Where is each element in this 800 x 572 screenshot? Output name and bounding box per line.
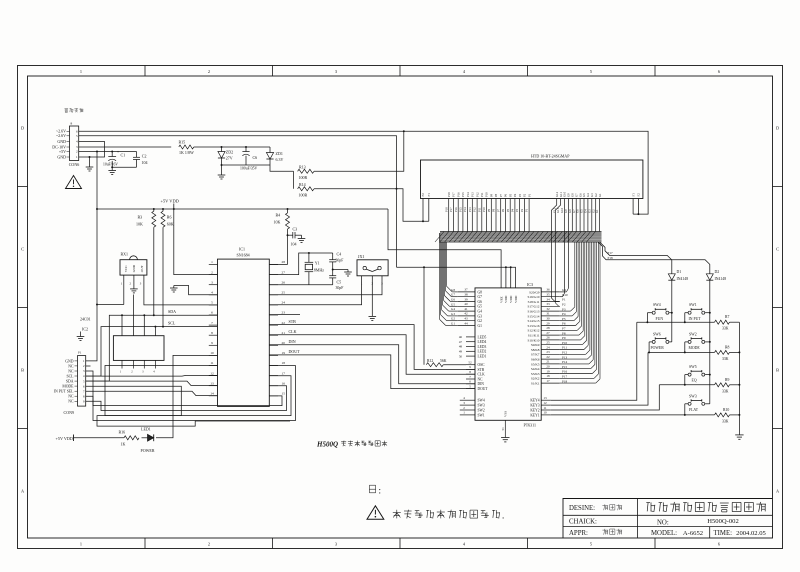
svg-text:40: 40 (464, 302, 468, 306)
svg-text:IN PUT: IN PUT (689, 317, 702, 321)
wire switch column 2 (D2) (705, 312, 710, 314)
svg-text:H500Q: H500Q (316, 441, 338, 449)
resistor R13 (298, 169, 314, 173)
wire +5V vertical (96, 152, 98, 210)
svg-text:P11: P11 (562, 346, 567, 350)
svg-text:4: 4 (463, 69, 466, 74)
svg-text:7: 7 (469, 375, 471, 379)
svg-text::: : (379, 486, 382, 496)
svg-text:4: 4 (153, 371, 155, 374)
svg-text:22: 22 (282, 321, 286, 325)
node +5V VDD (LED) (73, 435, 75, 442)
svg-text:P3: P3 (518, 193, 522, 197)
wire filament-2 (79, 136, 397, 267)
svg-text:100R: 100R (299, 175, 308, 180)
svg-text:B: B (776, 368, 779, 373)
svg-text:24: 24 (546, 345, 550, 349)
svg-text:27V: 27V (226, 156, 233, 161)
svg-text:11: 11 (210, 361, 214, 365)
wire P18 tap to D2 (599, 243, 710, 274)
svg-text:C: C (776, 247, 779, 252)
svg-text:1: 1 (120, 371, 122, 374)
svg-text:8: 8 (83, 394, 85, 398)
svg-text:+5V VDD: +5V VDD (161, 199, 179, 204)
svg-text:C4: C4 (337, 252, 342, 257)
wire IC1 pin25 to JX1 (269, 281, 382, 295)
svg-text:P13: P13 (468, 207, 472, 212)
svg-text:P4: P4 (513, 193, 517, 197)
svg-text:LED5: LED5 (478, 335, 487, 339)
svg-text:P5: P5 (508, 193, 512, 197)
switch SW6 POWER (652, 340, 655, 343)
svg-text:NC: NC (68, 395, 74, 399)
PT6311 left pins SW4-SW1 (460, 399, 475, 401)
svg-text:12: 12 (543, 401, 547, 405)
svg-text:P17: P17 (608, 251, 613, 255)
svg-text:37: 37 (464, 288, 468, 292)
svg-text:50: 50 (459, 354, 463, 358)
svg-text:G1: G1 (451, 322, 455, 326)
capacitor C5 (332, 270, 334, 276)
svg-text:R13: R13 (299, 164, 306, 169)
svg-text:G3: G3 (478, 314, 483, 318)
svg-text:R15: R15 (179, 140, 186, 145)
svg-text:G6: G6 (451, 298, 455, 302)
svg-text:R3: R3 (138, 215, 143, 220)
svg-text:MODE: MODE (62, 385, 74, 389)
svg-text:S16/G13: S16/G13 (527, 310, 539, 314)
svg-text:8: 8 (469, 370, 471, 374)
svg-text:3: 3 (335, 542, 337, 547)
capacitor C1 (111, 152, 113, 157)
wire R4 to IC1 pin28 (269, 264, 287, 266)
svg-text:LED1: LED1 (478, 355, 487, 359)
svg-text:G7: G7 (451, 293, 455, 297)
svg-text:2004.02.05: 2004.02.05 (736, 530, 766, 537)
wire key row D (KEY1) (551, 414, 715, 416)
svg-text:S18/G11: S18/G11 (528, 300, 540, 304)
svg-text:7: 7 (211, 321, 213, 325)
svg-text:A: A (21, 489, 25, 494)
diode D1 (668, 274, 675, 280)
switch SW1 INPUT (688, 311, 691, 314)
resistor R7 (715, 320, 730, 324)
svg-text:D2: D2 (715, 270, 720, 274)
svg-text:P6: P6 (504, 193, 508, 197)
ground (near IC2) (80, 332, 82, 337)
svg-text:S7/K7: S7/K7 (531, 353, 540, 357)
svg-text:C5: C5 (337, 279, 342, 284)
svg-text:G2: G2 (478, 319, 483, 323)
wire 24C01 pin6 to SDA (143, 315, 145, 335)
svg-text:H500Q-002: H500Q-002 (707, 518, 739, 525)
svg-text:APPR:: APPR: (569, 530, 588, 537)
svg-text:+5V: +5V (59, 149, 66, 154)
VFD P pin drops into bus (448, 199, 450, 232)
svg-text:27: 27 (546, 331, 550, 335)
bus band left bend to G pins (439, 233, 441, 243)
svg-text:P8: P8 (494, 193, 498, 197)
ground (CON6) (86, 166, 94, 168)
svg-text:DESINE:: DESINE: (569, 505, 595, 512)
svg-text:P14: P14 (466, 192, 470, 197)
wire VFD left filament pins (422, 199, 424, 222)
svg-text:VEE: VEE (499, 296, 503, 303)
svg-text:R10: R10 (723, 408, 729, 412)
svg-text:P2: P2 (520, 208, 524, 212)
svg-text:3: 3 (335, 69, 337, 74)
svg-text:NC: NC (68, 364, 74, 368)
svg-text:104: 104 (291, 241, 297, 246)
svg-text:5: 5 (590, 542, 592, 547)
svg-text:3: 3 (83, 369, 85, 373)
svg-text:RX1: RX1 (121, 252, 129, 257)
svg-text:CHAICK:: CHAICK: (569, 519, 597, 526)
ground (C3) (301, 235, 303, 238)
svg-text:IC1: IC1 (239, 246, 245, 251)
svg-text:NC: NC (68, 369, 74, 373)
svg-text:5: 5 (211, 301, 213, 305)
svg-text:DOUT: DOUT (478, 387, 489, 391)
svg-text:.: . (502, 511, 504, 521)
svg-text:P2: P2 (562, 303, 566, 307)
signature name (designer) (602, 505, 608, 507)
wire SCL (86, 327, 218, 377)
svg-text:1: 1 (211, 260, 213, 264)
svg-text:SW6: SW6 (653, 332, 661, 336)
bus band hatch (435, 232, 444, 243)
svg-text:P17: P17 (452, 192, 456, 197)
company name text (646, 502, 650, 504)
switch SW3 FLAT (688, 402, 691, 405)
svg-text:G6: G6 (478, 300, 483, 304)
svg-text:51: 51 (501, 427, 505, 431)
svg-text:S12/K12: S12/K12 (527, 329, 539, 333)
wire key row A (637, 321, 715, 323)
svg-text:2: 2 (76, 150, 78, 154)
svg-text:20: 20 (546, 365, 550, 369)
svg-text:28: 28 (282, 260, 286, 264)
wire CON6 GND pins (79, 142, 105, 158)
svg-text:R16: R16 (119, 429, 126, 434)
svg-text:D: D (21, 126, 24, 131)
svg-text:30pF: 30pF (336, 259, 344, 263)
svg-text:104: 104 (142, 160, 148, 165)
svg-text:2: 2 (208, 69, 210, 74)
svg-text:P11: P11 (477, 207, 481, 212)
svg-text:P17: P17 (562, 375, 567, 379)
warning triangle (top-left) (66, 176, 82, 189)
resistor R12 (OSC) (423, 267, 425, 364)
svg-text:+5V VDD: +5V VDD (56, 436, 73, 441)
svg-text:SW5: SW5 (689, 365, 697, 369)
svg-text:24: 24 (282, 301, 286, 305)
svg-text:24C01: 24C01 (80, 317, 91, 322)
svg-text:G3: G3 (451, 312, 455, 316)
capacitor C6 (245, 147, 247, 152)
svg-text:2: 2 (463, 406, 465, 410)
svg-text:SW1: SW1 (689, 303, 697, 307)
svg-text:P13: P13 (562, 355, 567, 359)
svg-text:5: 5 (83, 379, 85, 383)
svg-text:S15/G14: S15/G14 (527, 314, 539, 318)
svg-text:TIME:: TIME: (714, 530, 733, 537)
svg-text:29: 29 (546, 321, 550, 325)
wire filament-1 (79, 131, 648, 214)
svg-text:3: 3 (76, 145, 78, 149)
svg-text:6.3V: 6.3V (276, 157, 284, 162)
resistor R8 (715, 350, 730, 354)
svg-text:F1: F1 (631, 193, 635, 197)
capacitor C2 (136, 152, 138, 158)
wire IC1 pin18 around bottom to CON9 pin3 (86, 366, 296, 421)
resistor R15 (179, 145, 194, 149)
svg-text:P7: P7 (499, 193, 503, 197)
wire DOUT (269, 355, 475, 389)
svg-text:Y1: Y1 (315, 260, 320, 265)
svg-text:P14: P14 (463, 207, 467, 212)
wire CLK (269, 335, 475, 375)
svg-text:G5: G5 (478, 305, 483, 309)
svg-text:R8: R8 (725, 345, 730, 349)
svg-text:13: 13 (543, 396, 547, 400)
wire +5V to IC1 pin2 (174, 209, 218, 275)
resistor R6 (161, 211, 165, 227)
svg-text:60K: 60K (167, 222, 174, 227)
svg-text:26: 26 (546, 336, 550, 340)
svg-text:41: 41 (464, 307, 468, 311)
ground (IC1 pin4) (173, 286, 175, 289)
svg-text:LED2: LED2 (478, 350, 487, 354)
svg-text:P15: P15 (461, 192, 465, 197)
svg-text:+: + (117, 149, 120, 154)
svg-text:CLK: CLK (289, 329, 297, 334)
svg-text:4: 4 (463, 542, 466, 547)
svg-text:1: 1 (121, 281, 123, 285)
svg-text:S13/G16: S13/G16 (527, 324, 539, 328)
svg-text:33K: 33K (722, 357, 729, 361)
svg-text:A: A (776, 489, 780, 494)
svg-text:R14: R14 (299, 182, 306, 187)
svg-text:P1: P1 (527, 193, 531, 197)
svg-text:P3: P3 (562, 307, 566, 311)
ground (ZD2) (218, 174, 226, 176)
svg-text:S2/K2: S2/K2 (531, 377, 540, 381)
wire VDD feed to PT6311 (397, 267, 516, 288)
svg-text:S20/G9: S20/G9 (529, 290, 540, 294)
bus band right verticals to PT6311 (574, 242, 576, 307)
svg-text:33K: 33K (722, 389, 729, 393)
svg-text:F2: F2 (637, 193, 641, 197)
svg-text:21: 21 (546, 360, 550, 364)
svg-text:SW4: SW4 (653, 303, 661, 307)
svg-text:GND: GND (57, 139, 66, 144)
svg-text:SDA: SDA (168, 309, 176, 314)
EEPROM IC2 24C01 (113, 336, 164, 361)
svg-text:C: C (21, 247, 24, 252)
svg-text:2: 2 (131, 371, 133, 374)
wire IC1 pin24 to JX1 (269, 281, 361, 305)
svg-text:P6: P6 (501, 208, 505, 212)
svg-text:1: 1 (80, 69, 82, 74)
svg-text:P1: P1 (562, 298, 566, 302)
svg-text:P18: P18 (608, 256, 613, 260)
svg-text:LED3: LED3 (478, 345, 487, 349)
wire DIN (269, 345, 475, 384)
wire KEY4 (551, 322, 637, 400)
PT6311 right pins KEY4-KEY1 (541, 399, 551, 401)
svg-text:4: 4 (463, 396, 465, 400)
svg-text:VDD: VDD (509, 295, 513, 303)
svg-text:6: 6 (718, 69, 721, 74)
svg-text:S19/G10: S19/G10 (527, 295, 539, 299)
svg-text:G2: G2 (451, 317, 455, 321)
svg-text:OSC: OSC (478, 363, 486, 367)
svg-text:10K: 10K (274, 220, 281, 225)
svg-text:32: 32 (546, 307, 550, 311)
svg-text:27: 27 (282, 270, 286, 274)
svg-text:SW1: SW1 (478, 413, 485, 417)
svg-text:P13: P13 (471, 192, 475, 197)
svg-text:G1: G1 (478, 324, 483, 328)
svg-text:3: 3 (463, 401, 465, 405)
svg-text:P15: P15 (459, 207, 463, 212)
svg-text:4: 4 (211, 291, 213, 295)
svg-text:100R: 100R (299, 192, 308, 197)
svg-text:14: 14 (210, 392, 214, 396)
svg-text:28: 28 (546, 326, 550, 330)
svg-text:DIN: DIN (478, 382, 485, 386)
svg-text:SCL: SCL (168, 321, 176, 326)
svg-text:8: 8 (71, 121, 73, 125)
PT6311 left pins G8-G1 (458, 291, 475, 293)
svg-text:P4: P4 (562, 312, 566, 316)
svg-text:NC: NC (68, 400, 74, 404)
svg-text:8: 8 (211, 331, 213, 335)
resistor R4 (287, 209, 289, 213)
svg-text:S5/K5: S5/K5 (531, 362, 540, 366)
wire CON9 pin6 maze (86, 386, 290, 426)
svg-text:S14/G15: S14/G15 (527, 319, 539, 323)
svg-text:POWER: POWER (141, 448, 155, 453)
svg-text:P6: P6 (562, 322, 566, 326)
svg-text:1K: 1K (121, 441, 126, 446)
svg-text:SW3: SW3 (689, 394, 697, 398)
svg-text:G5: G5 (451, 302, 455, 306)
svg-text:1K 1/8W: 1K 1/8W (179, 150, 194, 155)
svg-text:56K: 56K (440, 359, 447, 363)
switch SW4 FUN (652, 311, 655, 314)
wire CON9 pin2 stub (86, 365, 91, 367)
svg-text:P12: P12 (475, 192, 479, 197)
VFD G pin drops into bus (551, 199, 556, 299)
svg-text:P9: P9 (487, 208, 491, 212)
svg-text:43: 43 (464, 317, 468, 321)
svg-text:P5: P5 (506, 208, 510, 212)
svg-text:P14: P14 (562, 360, 567, 364)
svg-text:KEY1: KEY1 (530, 413, 539, 417)
wire IC1 pin10 to LED (156, 355, 218, 437)
svg-text:18: 18 (546, 374, 550, 378)
svg-text:STB: STB (478, 368, 485, 372)
svg-text:IC3: IC3 (527, 282, 533, 287)
svg-text:46: 46 (459, 335, 463, 339)
wire KEY3 (551, 352, 648, 405)
resistor R3 (152, 211, 156, 227)
svg-text:49: 49 (459, 350, 463, 354)
svg-text:3: 3 (211, 280, 213, 284)
svg-text:3: 3 (140, 281, 142, 285)
svg-text:36: 36 (546, 288, 550, 292)
svg-text:SN1684: SN1684 (237, 253, 250, 258)
svg-text:4: 4 (83, 374, 85, 378)
svg-text:P5: P5 (562, 317, 566, 321)
capacitor C4 (332, 253, 334, 260)
svg-text:9: 9 (211, 341, 213, 345)
svg-text:MODE: MODE (689, 346, 701, 350)
svg-text:IN PUT SEL: IN PUT SEL (54, 390, 74, 394)
note text (396, 510, 398, 519)
wire C1-C2 bottom (112, 166, 136, 168)
wire 24C01 pin5 to SCL (154, 327, 156, 336)
svg-text:2: 2 (211, 270, 213, 274)
svg-text:P1: P1 (525, 208, 529, 212)
wire KEY2 (551, 385, 660, 410)
svg-text:P18: P18 (562, 379, 567, 383)
svg-text:2: 2 (208, 542, 210, 547)
svg-text:P15: P15 (562, 365, 567, 369)
svg-text:S11/K11: S11/K11 (528, 334, 540, 338)
svg-text:52: 52 (468, 361, 472, 365)
svg-text:G8: G8 (478, 290, 483, 294)
svg-text:KEY2: KEY2 (530, 408, 539, 412)
svg-text:3: 3 (142, 371, 144, 374)
PT6311 left pins OSC/STB/CLK/NC/DIN/DOUT (466, 364, 475, 366)
svg-text:10: 10 (543, 411, 547, 415)
svg-text:P11: P11 (480, 192, 484, 197)
connector CON6 (70, 126, 79, 161)
wire VFD right filament pins (632, 199, 634, 215)
svg-text:10: 10 (210, 351, 214, 355)
PT6311 right pins (541, 291, 560, 293)
svg-text:13: 13 (210, 381, 214, 385)
wire key row C (659, 384, 714, 386)
wire key pullup rail to ground (738, 322, 740, 435)
svg-text:25: 25 (546, 341, 550, 345)
diode D2 (706, 274, 713, 280)
svg-text:P18: P18 (444, 207, 448, 212)
svg-text:P10: P10 (482, 207, 486, 212)
resistor R16 (124, 436, 139, 440)
IC U3 PT6311 (475, 288, 541, 420)
svg-text:VDD: VDD (504, 295, 508, 303)
svg-text:P9: P9 (490, 193, 494, 197)
svg-text:KEY3: KEY3 (530, 404, 539, 408)
svg-text:C2: C2 (142, 154, 147, 159)
wire 24C01 pin8 to SDA (121, 315, 123, 335)
svg-text:19: 19 (282, 351, 286, 355)
svg-text:ZD2: ZD2 (226, 150, 233, 155)
PT6311 left pins LED5-LED1 (466, 336, 475, 338)
svg-text:FLAT: FLAT (689, 408, 699, 412)
wire DC-10V (79, 146, 171, 148)
svg-text:P18: P18 (447, 192, 451, 197)
svg-text:P10: P10 (562, 341, 567, 345)
resistor R10 (715, 413, 730, 417)
svg-text:5: 5 (469, 384, 471, 388)
wire CON9 pin7 to IC1 pin14 (86, 391, 218, 395)
wire filament-2 jog to VFD left pins (397, 189, 429, 222)
